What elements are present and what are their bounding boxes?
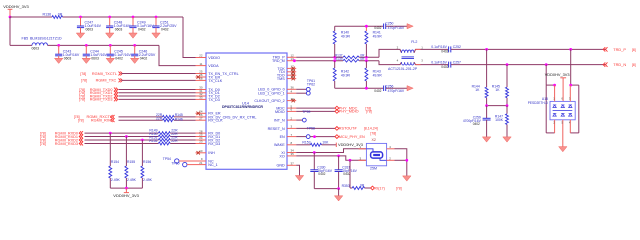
svg-text:WAKE: WAKE <box>274 143 285 147</box>
svg-text:VDDIO: VDDIO <box>208 56 220 60</box>
svg-text:35: 35 <box>291 152 295 156</box>
svg-text:VDDA: VDDA <box>208 64 219 68</box>
svg-text:MDIO: MDIO <box>275 110 285 114</box>
svg-text:LED_1_GPIO_1: LED_1_GPIO_1 <box>258 92 285 96</box>
svg-text:[8,14,24]: [8,14,24] <box>364 127 378 131</box>
svg-text:R155: R155 <box>127 160 135 164</box>
svg-text:R136: R136 <box>43 13 52 17</box>
svg-text:PESD2ETH-D: PESD2ETH-D <box>528 101 549 105</box>
svg-text:INH: INH <box>208 151 215 155</box>
svg-text:TP54: TP54 <box>163 157 171 161</box>
svg-text:INT_N: INT_N <box>274 118 285 122</box>
svg-text:C256: C256 <box>385 84 393 88</box>
svg-text:RGMII_RXD3: RGMII_RXD3 <box>55 142 78 146</box>
svg-text:TP59: TP59 <box>302 110 310 114</box>
svg-text:DP83TC811RWRNDRCR: DP83TC811RWRNDRCR <box>222 105 263 109</box>
svg-text:TRD_P: TRD_P <box>613 47 626 52</box>
svg-text:VDD0HV_3V3: VDD0HV_3V3 <box>545 72 570 77</box>
svg-text:27: 27 <box>199 116 203 120</box>
svg-text:49.9R: 49.9R <box>341 34 351 38</box>
svg-text:R152: R152 <box>149 139 157 143</box>
svg-text:CLKOUT_GPIO_2: CLKOUT_GPIO_2 <box>254 99 284 103</box>
svg-text:100K: 100K <box>495 118 504 122</box>
svg-text:10K: 10K <box>322 141 329 145</box>
svg-text:EN: EN <box>280 135 285 139</box>
svg-text:470pF/16V: 470pF/16V <box>388 89 405 93</box>
svg-text:X2: X2 <box>372 138 376 142</box>
svg-text:1K: 1K <box>495 88 500 92</box>
svg-text:VDD0HV_3V3: VDD0HV_3V3 <box>113 193 139 198</box>
svg-text:22: 22 <box>199 54 203 58</box>
svg-text:0603: 0603 <box>91 57 99 61</box>
svg-text:0402: 0402 <box>140 57 148 61</box>
svg-text:XO: XO <box>279 154 284 158</box>
svg-text:[78]: [78] <box>79 98 85 102</box>
svg-text:FB5: FB5 <box>22 37 29 41</box>
svg-text:R145: R145 <box>175 113 183 117</box>
svg-text:RGMII_RXC: RGMII_RXC <box>91 119 112 123</box>
svg-text:[78]: [78] <box>80 72 86 76</box>
svg-text:TP58: TP58 <box>307 127 315 131</box>
svg-text:0402: 0402 <box>343 172 350 176</box>
svg-text:[78]: [78] <box>81 79 87 83</box>
svg-text:0603: 0603 <box>32 47 40 51</box>
svg-text:0603: 0603 <box>86 28 94 32</box>
svg-text:0R: 0R <box>360 57 365 61</box>
svg-text:0402: 0402 <box>473 122 480 126</box>
svg-text:GND: GND <box>276 164 285 168</box>
svg-text:470pF/16V: 470pF/16V <box>388 26 405 30</box>
svg-text:0402: 0402 <box>318 172 325 176</box>
svg-text:[78]: [78] <box>396 186 402 190</box>
svg-text:0402: 0402 <box>374 89 381 93</box>
svg-text:0R: 0R <box>360 184 365 188</box>
svg-text:0R: 0R <box>58 13 63 17</box>
svg-text:RESET_N: RESET_N <box>268 127 285 131</box>
svg-text:0402: 0402 <box>138 28 146 32</box>
svg-text:TMS: TMS <box>277 77 285 81</box>
svg-text:R154: R154 <box>111 160 119 164</box>
svg-text:49.9R: 49.9R <box>373 73 383 77</box>
svg-text:0402: 0402 <box>115 57 123 61</box>
svg-text:[78]: [78] <box>370 132 376 136</box>
svg-text:1K: 1K <box>475 88 480 92</box>
svg-text:0.1uF/16V: 0.1uF/16V <box>431 60 447 64</box>
svg-text:0402: 0402 <box>161 28 169 32</box>
svg-text:TX_CLK: TX_CLK <box>208 79 222 83</box>
svg-text:[78]: [78] <box>78 119 84 123</box>
svg-text:33: 33 <box>199 96 203 100</box>
svg-text:0402: 0402 <box>374 26 381 30</box>
svg-text:R146: R146 <box>175 117 183 121</box>
svg-text:23: 23 <box>199 140 203 144</box>
svg-text:[8]: [8] <box>632 63 636 67</box>
svg-text:49.9R: 49.9R <box>373 34 383 38</box>
svg-text:RGMII_TXCTL: RGMII_TXCTL <box>92 72 117 76</box>
svg-text:PHY_MDIO: PHY_MDIO <box>339 110 359 114</box>
svg-text:37: 37 <box>291 162 295 166</box>
svg-text:RX_D3: RX_D3 <box>208 142 220 146</box>
svg-text:RGMII_TXC: RGMII_TXC <box>96 79 117 83</box>
svg-text:21: 21 <box>199 161 203 165</box>
svg-text:49.9R: 49.9R <box>341 73 351 77</box>
svg-text:2.49K: 2.49K <box>127 178 137 182</box>
svg-text:0603: 0603 <box>64 57 72 61</box>
svg-text:10: 10 <box>199 149 203 153</box>
svg-text:0402: 0402 <box>441 49 448 53</box>
svg-text:22R: 22R <box>171 139 178 143</box>
svg-text:FL2: FL2 <box>411 40 417 44</box>
svg-text:NC_1: NC_1 <box>208 163 217 167</box>
svg-text:VDD0HV_3V3: VDD0HV_3V3 <box>3 4 29 9</box>
svg-text:R156: R156 <box>143 160 151 164</box>
svg-text:11: 11 <box>199 62 202 66</box>
svg-text:[8]: [8] <box>632 48 636 52</box>
svg-text:25M: 25M <box>370 167 377 171</box>
svg-text:TRD_N: TRD_N <box>613 62 626 67</box>
svg-text:MCU_PHY_EN: MCU_PHY_EN <box>339 135 365 139</box>
svg-text:C250: C250 <box>385 21 393 25</box>
svg-text:R353: R353 <box>342 184 350 188</box>
svg-text:RGMII_TXD3: RGMII_TXD3 <box>90 98 113 102</box>
svg-text:2.49K: 2.49K <box>111 178 121 182</box>
svg-text:TP60: TP60 <box>171 162 179 166</box>
svg-text:[78]: [78] <box>40 142 46 146</box>
svg-text:C257: C257 <box>453 60 461 64</box>
svg-text:2.49K: 2.49K <box>143 178 153 182</box>
svg-text:[78]: [78] <box>366 110 372 114</box>
svg-text:ACT1210L-201-2P: ACT1210L-201-2P <box>388 67 418 71</box>
svg-text:XI(17): XI(17) <box>375 186 386 190</box>
svg-text:C252: C252 <box>453 45 461 49</box>
svg-text:22R: 22R <box>156 116 163 120</box>
svg-text:RSTOUT#: RSTOUT# <box>339 127 358 131</box>
svg-text:TP62: TP62 <box>307 82 315 86</box>
svg-text:R153: R153 <box>302 141 310 145</box>
svg-text:0402: 0402 <box>441 65 448 69</box>
svg-text:BLM18SG121TZ1D: BLM18SG121TZ1D <box>30 37 62 41</box>
svg-text:RX_CLK: RX_CLK <box>208 119 223 123</box>
svg-text:TRD_M: TRD_M <box>272 59 285 63</box>
svg-text:TX_D3: TX_D3 <box>208 98 219 102</box>
svg-text:0603: 0603 <box>115 28 123 32</box>
